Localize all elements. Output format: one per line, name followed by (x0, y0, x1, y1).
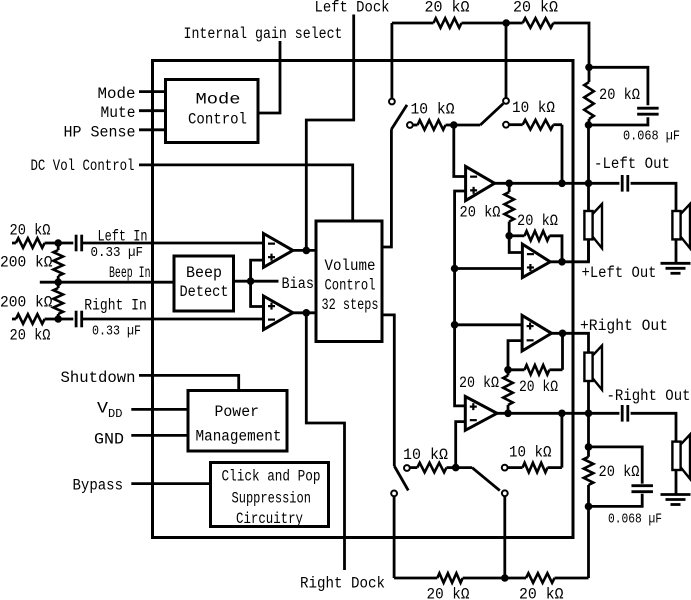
wire op-R output (293, 311, 316, 314)
node op-R output (303, 309, 311, 317)
resistor 10k TL (413, 124, 418, 127)
resistor 10k BR (508, 466, 523, 469)
wire +Right Out row (552, 333, 589, 352)
wire Mute input (139, 109, 166, 112)
svg-text:0.068 µF: 0.068 µF (608, 513, 662, 528)
wire Beep In (40, 281, 58, 284)
speaker headphone right (672, 442, 680, 470)
svg-text:Left In: Left In (98, 228, 148, 246)
svg-text:Right Dock: Right Dock (300, 575, 385, 593)
svg-text:-Left Out: -Left Out (594, 155, 670, 173)
wire Left Dock (306, 15, 353, 251)
resistor 20k top rail 2 (523, 18, 554, 28)
svg-text:Mute: Mute (101, 104, 136, 122)
op-amp U4 right minus (465, 397, 497, 431)
svg-text:32 steps: 32 steps (322, 296, 379, 314)
svg-text:20 kΩ: 20 kΩ (425, 0, 470, 17)
node rb block top (585, 443, 593, 451)
node fb left mid (505, 232, 513, 240)
wire 10k TR down (561, 125, 564, 184)
svg-text:Mode: Mode (196, 91, 241, 109)
wire Right Dock (306, 313, 344, 570)
speaker right channel (584, 353, 592, 381)
contact 10k BL (404, 465, 410, 471)
svg-text:Internal gain select: Internal gain select (184, 25, 343, 43)
node -Right Out (585, 410, 593, 418)
svg-text:20 kΩ: 20 kΩ (519, 586, 564, 600)
svg-text:Circuitry: Circuitry (236, 510, 303, 528)
svg-text:0.33 µF: 0.33 µF (91, 246, 144, 261)
wire fb2 down (561, 413, 564, 467)
wire rb join (587, 413, 590, 447)
svg-text:+Right Out: +Right Out (580, 317, 668, 335)
capacitor 0.33uF right (58, 318, 73, 321)
wire switch TL to volume (382, 129, 391, 247)
switch TR lever (480, 104, 503, 125)
capacitor 0.068uF bottom (631, 484, 653, 487)
svg-text:Right In: Right In (84, 297, 147, 315)
node Beep In junction (54, 278, 62, 286)
wire DC Vol Control (139, 165, 353, 221)
svg-text:20 kΩ: 20 kΩ (519, 378, 558, 396)
contact switch BL (391, 491, 397, 497)
wire HP Sense input (139, 128, 166, 131)
svg-text:200 kΩ: 200 kΩ (0, 294, 53, 312)
wire -Right Out to speaker (631, 413, 676, 441)
wire rb cap loop bottom (589, 494, 643, 507)
capacitor 0.33uF left (58, 242, 73, 245)
svg-text:Mode: Mode (98, 85, 136, 103)
contact 10k TL (407, 122, 413, 128)
wire -Left Out row (495, 182, 620, 185)
resistor 20k left-in bottom (16, 314, 45, 324)
node op-L output (303, 247, 311, 255)
wire switch BL to rail (393, 496, 396, 578)
node op3 out (559, 330, 567, 338)
svg-text:200 kΩ: 200 kΩ (0, 254, 53, 272)
svg-text:Power: Power (215, 403, 260, 421)
node op4 out (504, 410, 512, 418)
resistor 200k lower (53, 288, 63, 314)
block Beep Detect (174, 256, 234, 311)
svg-text:Volume: Volume (325, 257, 376, 275)
wire +Left Out row (550, 239, 588, 261)
svg-text:10 kΩ: 10 kΩ (512, 99, 555, 117)
svg-text:10 kΩ: 10 kΩ (403, 446, 448, 464)
svg-text:10 kΩ: 10 kΩ (411, 101, 455, 119)
resistor 20k left-in top (16, 238, 45, 248)
wire op3 plus feed (455, 323, 522, 326)
svg-text:Control: Control (325, 277, 376, 295)
svg-text:Control: Control (188, 111, 247, 129)
node op2 plus junction (451, 265, 459, 273)
resistor 20k fb left vertical (504, 192, 514, 222)
node 10k TR join (558, 180, 566, 188)
wire rb block to rail (587, 506, 590, 578)
svg-text:20 kΩ: 20 kΩ (599, 86, 640, 104)
capacitor -Right Out (621, 405, 624, 422)
svg-text:GND: GND (94, 431, 124, 449)
speaker headphone left (672, 211, 680, 239)
svg-text:20 kΩ: 20 kΩ (460, 204, 501, 222)
wire fb to op2 minus (509, 236, 522, 253)
wire rt cap loop top (589, 67, 648, 105)
node -Left Out (585, 180, 593, 188)
svg-text:+Left Out: +Left Out (582, 264, 657, 282)
node 10k BL junction (452, 464, 460, 472)
wire to switch TR (454, 124, 481, 127)
svg-text:20 kΩ: 20 kΩ (427, 586, 470, 600)
svg-text:0.068 µF: 0.068 µF (623, 130, 680, 145)
resistor 20k fb right vertical (503, 376, 513, 406)
node bias junction (247, 277, 255, 285)
wire to switch BR (456, 466, 472, 469)
node op2 out (558, 258, 566, 266)
block Power Management (188, 391, 287, 452)
svg-text:20 kΩ: 20 kΩ (459, 374, 499, 392)
wire op-L output (293, 249, 316, 252)
svg-text:0.33 µF: 0.33 µF (92, 325, 141, 340)
wire bias rail (455, 191, 466, 406)
svg-text:Beep In: Beep In (109, 264, 151, 282)
resistor 20k right bottom (584, 457, 594, 485)
IC boundary box (153, 61, 574, 538)
wire top rail (392, 22, 434, 25)
svg-text:Beep: Beep (186, 264, 222, 282)
speaker left channel (584, 211, 592, 239)
node top rail junction (502, 19, 510, 27)
svg-text:Detect: Detect (180, 283, 229, 301)
ground headphone left (661, 262, 691, 265)
wire op3 fb down (561, 333, 564, 370)
block Mode Control (166, 80, 259, 143)
svg-text:20 kΩ: 20 kΩ (513, 0, 558, 17)
switch BL lever (394, 466, 408, 490)
node rt block top (585, 64, 593, 72)
svg-text:Management: Management (196, 428, 282, 446)
node op3 plus junction (451, 321, 459, 329)
wire op2 plus feed (455, 267, 523, 270)
wire Shutdown (139, 375, 239, 390)
wire Bypass (131, 482, 210, 485)
wire VDD (131, 408, 188, 411)
svg-text:DC Vol Control: DC Vol Control (31, 157, 135, 175)
wire -Left Out to speaker (631, 183, 676, 211)
wire switch TL from rail (390, 23, 393, 99)
svg-text:-Right Out: -Right Out (607, 387, 691, 405)
wire -Right Out row (497, 412, 619, 415)
node Left In junction (54, 239, 62, 247)
wire rt block to out row (587, 125, 590, 183)
resistor 20k top rail 1 (434, 18, 462, 28)
op-amp left input (264, 234, 293, 268)
svg-text:DD: DD (108, 408, 123, 421)
wire GND (131, 434, 188, 437)
node op1 out (505, 180, 513, 188)
wire Mode input (139, 90, 166, 93)
contact 10k TR (503, 122, 509, 128)
capacitor -Left Out (621, 175, 624, 192)
svg-text:Bypass: Bypass (73, 477, 124, 495)
contact switch TL (389, 99, 395, 105)
svg-text:Click and Pop: Click and Pop (222, 468, 321, 486)
resistor 10k BL (410, 466, 418, 469)
block Click and Pop (211, 463, 329, 527)
switch TL lever (391, 105, 407, 129)
wire internal gain select (258, 41, 280, 113)
svg-text:HP Sense: HP Sense (64, 124, 136, 142)
resistor 200k upper (53, 250, 63, 276)
contact switch BR (502, 490, 508, 496)
op-amp right input (264, 296, 293, 330)
wire switch BR to rail (503, 496, 506, 578)
svg-text:20 kΩ: 20 kΩ (517, 212, 558, 230)
capacitor 0.068uF top (637, 107, 659, 110)
op-amp U1 left minus (466, 166, 495, 200)
block Volume Control (316, 221, 382, 342)
resistor 10k TR (509, 123, 523, 126)
wire op3 minus feed (508, 341, 522, 370)
node bottom rail junction (501, 574, 509, 582)
wire bottom rail (394, 577, 437, 580)
svg-text:20 kΩ: 20 kΩ (10, 327, 51, 345)
node fb right mid (504, 366, 512, 374)
svg-text:Suppression: Suppression (232, 490, 312, 508)
svg-text:Shutdown: Shutdown (61, 369, 136, 387)
op-amp U2 left plus (522, 244, 550, 277)
resistor 20k right top (584, 82, 594, 119)
wire bias (234, 280, 279, 283)
wire rt cap loop bottom (589, 117, 648, 125)
svg-text:20 kΩ: 20 kΩ (599, 463, 640, 481)
node 10k TL junction (450, 121, 458, 129)
node Right In junction (54, 315, 62, 323)
resistor 20k bottom rail 1 (437, 573, 462, 583)
resistor 20k bottom rail 2 (526, 573, 555, 583)
switch BR lever (472, 468, 500, 491)
contact 10k BR (502, 465, 508, 471)
svg-text:20 kΩ: 20 kΩ (10, 222, 51, 240)
svg-text:Left Dock: Left Dock (315, 0, 390, 17)
resistor 20k fb right horizontal (549, 368, 562, 371)
wire op4 minus feed (456, 422, 466, 468)
wire switch TR from rail (505, 23, 508, 98)
wire rb cap loop top (589, 447, 643, 484)
node rb block bottom (585, 503, 593, 511)
ground headphone right (661, 493, 691, 496)
contact switch TR (503, 98, 509, 104)
svg-text:Bias: Bias (282, 275, 315, 293)
node rt block bottom (585, 121, 593, 129)
node op4 out 2 (558, 410, 566, 418)
op-amp U3 right plus (522, 315, 551, 351)
svg-text:10 kΩ: 10 kΩ (509, 444, 552, 462)
wire op1 minus feed (454, 125, 466, 177)
resistor 20k fb left horizontal (509, 234, 524, 237)
wire switch BL from volume (382, 315, 394, 466)
